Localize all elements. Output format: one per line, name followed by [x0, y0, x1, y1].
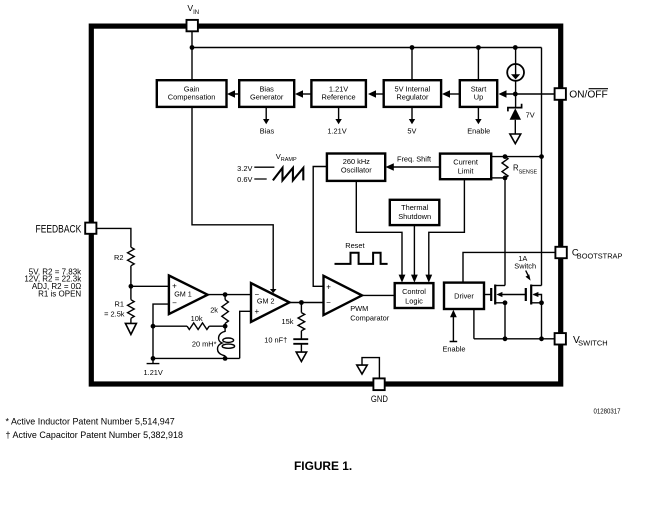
svg-text:* Active Inductor Patent Numbe: * Active Inductor Patent Number 5,514,94… [6, 416, 175, 426]
svg-text:Compensation: Compensation [168, 93, 216, 102]
svg-text:Logic: Logic [405, 296, 423, 305]
svg-text:15k: 15k [281, 317, 293, 326]
svg-text:20 mH*: 20 mH* [192, 339, 217, 348]
svg-text:Reference: Reference [322, 93, 356, 102]
svg-text:−: − [254, 290, 259, 299]
svg-text:GM 2: GM 2 [257, 297, 275, 306]
svg-text:GM 1: GM 1 [174, 290, 192, 299]
svg-text:10 nF†: 10 nF† [264, 335, 287, 344]
svg-text:SWITCH: SWITCH [578, 341, 607, 348]
svg-text:RAMP: RAMP [281, 157, 297, 163]
svg-text:1.21V: 1.21V [327, 127, 346, 136]
svg-text:+: + [254, 307, 259, 316]
svg-text:7V: 7V [526, 111, 535, 120]
svg-text:Regulator: Regulator [396, 93, 429, 102]
svg-text:01280317: 01280317 [594, 409, 621, 416]
svg-text:Reset: Reset [345, 241, 364, 250]
svg-text:Enable: Enable [442, 345, 465, 354]
svg-text:BOOTSTRAP: BOOTSTRAP [577, 252, 623, 261]
svg-text:Control: Control [402, 287, 426, 296]
svg-text:+: + [172, 281, 177, 290]
svg-text:FIGURE 1.: FIGURE 1. [294, 459, 352, 473]
svg-text:R2: R2 [114, 253, 123, 262]
svg-text:Comparator: Comparator [350, 313, 390, 322]
svg-text:Oscillator: Oscillator [341, 166, 372, 175]
svg-text:−: − [172, 298, 177, 307]
svg-text:−: − [326, 298, 331, 307]
svg-text:Thermal: Thermal [401, 203, 428, 212]
svg-text:0.6V: 0.6V [237, 175, 252, 184]
svg-text:R1: R1 [115, 299, 124, 308]
svg-text:5V: 5V [407, 127, 416, 136]
svg-text:10k: 10k [191, 314, 203, 323]
svg-text:+: + [326, 282, 331, 291]
svg-text:3.2V: 3.2V [237, 164, 252, 173]
svg-text:† Active Capacitor Patent Numb: † Active Capacitor Patent Number 5,382,9… [6, 430, 184, 440]
svg-text:Switch: Switch [514, 262, 536, 271]
svg-text:Shutdown: Shutdown [398, 212, 431, 221]
svg-text:FEEDBACK: FEEDBACK [36, 224, 82, 236]
svg-text:ON/OFF: ON/OFF [569, 90, 608, 101]
svg-text:SENSE: SENSE [519, 169, 538, 175]
svg-text:R1 is OPEN: R1 is OPEN [38, 290, 81, 299]
svg-text:GND: GND [371, 393, 388, 404]
svg-text:PWM: PWM [350, 304, 368, 313]
svg-text:1.21V: 1.21V [144, 368, 163, 377]
svg-text:Driver: Driver [454, 291, 474, 300]
svg-text:Enable: Enable [467, 127, 490, 136]
svg-text:2k: 2k [210, 305, 218, 314]
svg-text:Current: Current [453, 157, 478, 166]
svg-text:Limit: Limit [458, 166, 474, 175]
svg-text:= 2.5k: = 2.5k [104, 310, 125, 319]
svg-text:Generator: Generator [250, 93, 284, 102]
svg-text:Up: Up [474, 93, 483, 102]
svg-text:VIN: VIN [187, 3, 199, 16]
svg-text:Freq. Shift: Freq. Shift [397, 155, 431, 164]
svg-text:Bias: Bias [260, 127, 275, 136]
